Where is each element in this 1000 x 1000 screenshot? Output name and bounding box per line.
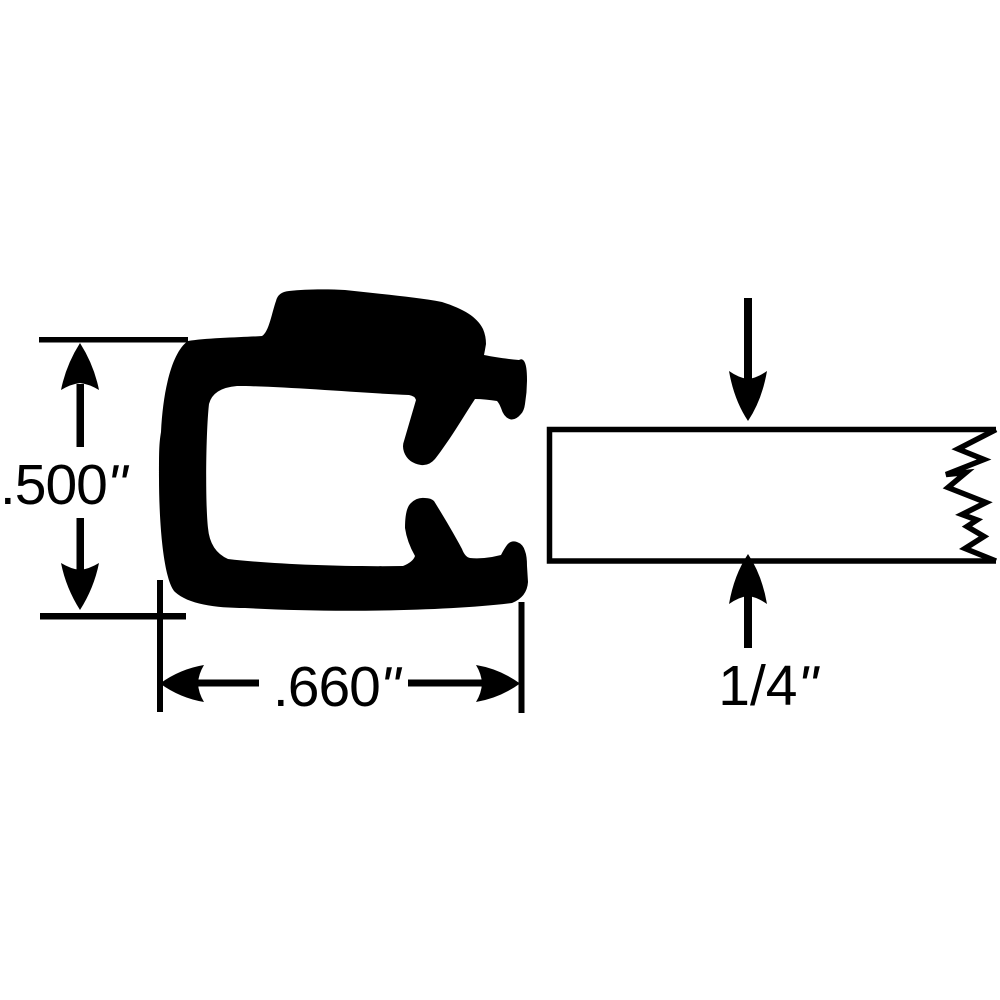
trim seal profile (black cross-section) (159, 289, 528, 610)
dimension .660" right extension line (519, 602, 525, 713)
panel rectangle outline (1/4 inch plate) (550, 430, 997, 562)
dimension .660" left extension line (157, 580, 163, 712)
svg-text:.660": .660" (273, 655, 403, 719)
dimension .660" right arrowhead (476, 665, 520, 702)
svg-text:1/4": 1/4" (718, 654, 820, 718)
dimension .500" bottom extension line (40, 613, 186, 620)
dimension .500" down arrowhead (61, 563, 99, 610)
dimension .660" horizontal dimension line left segment (198, 680, 259, 687)
svg-text:.500": .500" (0, 453, 130, 517)
dimension .660" left arrowhead (160, 665, 204, 702)
dimension .660" horizontal dimension line right segment (408, 680, 482, 687)
dimension .500" up arrowhead (61, 343, 99, 390)
panel: top down arrow shaft (744, 298, 752, 380)
dimension .500" vertical dimension line upper segment (77, 384, 85, 447)
dimension .500" vertical dimension line lower segment (77, 518, 85, 572)
panel break line (jagged torn edge) (946, 430, 996, 562)
panel: bottom up arrow shaft (744, 596, 752, 648)
panel: bottom up arrowhead (729, 554, 767, 604)
dimension .500" top extension line (39, 337, 188, 343)
panel: top down arrowhead (729, 371, 767, 421)
